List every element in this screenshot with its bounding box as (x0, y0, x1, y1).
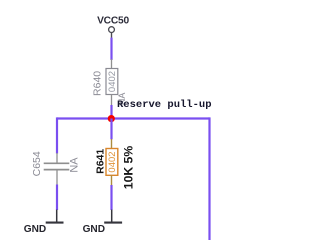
capacitor C654 (44, 153, 70, 185)
wire C654 to GND (56, 185, 58, 211)
wire right drop (208, 117, 210, 240)
wire junction to R641 (110, 119, 112, 140)
wire horizontal bus (57, 117, 210, 119)
resistor R640 (106, 59, 118, 106)
svg-text:0402: 0402 (107, 71, 118, 92)
wire VCC50 to R640 (110, 38, 112, 60)
wire left drop to C654 (56, 117, 58, 153)
wire R640 to junction (110, 105, 112, 119)
ground symbol right (104, 210, 122, 223)
power symbol VCC50 (109, 27, 115, 38)
svg-text:GND: GND (24, 224, 46, 235)
junction node (108, 115, 115, 122)
wire R641 to GND (110, 185, 112, 210)
svg-text:VCC50: VCC50 (97, 16, 129, 27)
svg-text:R641: R641 (95, 149, 107, 174)
svg-text:10K 5%: 10K 5% (121, 146, 135, 190)
resistor R641 (highlighted) (106, 139, 118, 185)
svg-text:Reserve pull-up: Reserve pull-up (117, 99, 212, 111)
svg-text:0402: 0402 (107, 151, 118, 172)
svg-text:R640: R640 (92, 71, 104, 96)
svg-text:GND: GND (83, 224, 105, 235)
svg-text:C654: C654 (31, 151, 43, 176)
ground symbol left (46, 210, 64, 223)
svg-text:NA: NA (68, 157, 80, 173)
